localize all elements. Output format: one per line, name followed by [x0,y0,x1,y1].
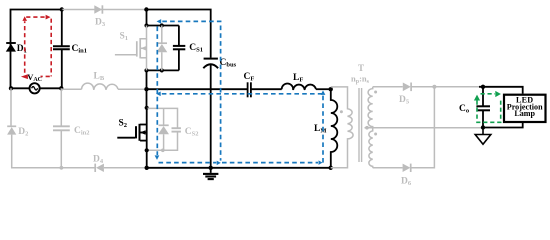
green dashed output loop [477,94,501,123]
capacitor CF (resonant) [248,82,251,97]
blue arrow right (bottom edge at LM leg) [319,160,323,165]
arrow of S2 [140,130,146,135]
ground (output, open triangle) [475,128,491,145]
blue arrow left (upper loop top edge) [157,19,162,24]
diode D2 (gray) [7,126,16,134]
svg-text:Cbus: Cbus [220,58,237,69]
svg-text:Lamp: Lamp [514,109,535,118]
diode D4 (gray) [95,164,104,172]
polarity dot secondary top [374,91,377,94]
transistor S2 (black MOSFET) [117,108,146,168]
diode of S2 cell (gray clamp diode) [158,108,169,152]
node: lower rail / Cin2 leg (gray) [60,166,64,170]
wire: Cbus stem down to bottom bus [210,64,212,168]
node: S1 cell top left [144,23,148,27]
wire: top bus black to Cbus corner [146,10,210,58]
node: S1 cell bottom left [144,68,148,72]
capacitor Cin2 (gray) [53,126,70,130]
inductor LM (magnetizing) [331,89,338,168]
diode D6 (gray) [403,164,411,172]
wire: gray lower rail with D4 [11,167,147,169]
node: bottom bus / ground [209,166,213,170]
wire: gray mid rail to boost inductor [61,88,144,90]
wire: output top black [479,87,523,94]
wire: LF to transformer [316,88,331,90]
capacitor CS1 [173,26,185,71]
wire: mid rail black to CF [147,88,248,90]
capacitor Cin1 [53,10,70,89]
red arrow up (left edge top) [22,16,27,21]
green arrow up (left edge) [474,95,480,101]
node: primary bottom [329,166,333,170]
wire: top bus black, left loop top [11,10,62,89]
node: output top [481,85,485,89]
blue arrow left (lower loop top edge) [156,92,161,97]
svg-text:CF: CF [244,72,255,83]
wire: bottom bus black [147,167,331,169]
wire: secondary bottom rail gray with D6 [373,87,435,168]
capacitor Co [476,87,490,128]
node: top bus / S1 leg junction [144,7,148,11]
red arrow right (top edge) [46,15,51,20]
green arrow right (top edge) [495,91,501,97]
svg-text:D6: D6 [401,177,412,188]
wire: gray Cin2 leg [60,88,62,168]
svg-text:CS2: CS2 [185,127,199,138]
svg-text:CS1: CS1 [189,43,203,54]
blue arrow right (bottom edge at ground leg) [217,161,221,166]
node: output bottom [481,125,485,129]
diode D5 (gray) [403,83,411,92]
diode of S1 cell (gray clamp diode) [156,26,167,71]
red arrow left (bottom edge) [21,74,28,79]
transformer secondary top winding (gray) [368,87,373,128]
wire: CF to LF [251,88,282,90]
svg-text:D3: D3 [95,18,106,29]
wire: left loop bottom with VAC [11,87,62,89]
svg-text:LB: LB [94,72,105,83]
svg-text:Cin1: Cin1 [72,44,88,55]
source VAC (AC) [29,83,39,93]
blue arrow down (left edge) [155,155,160,160]
capacitor Cbus (polarized) [203,59,218,69]
transformer secondary bottom winding (gray) [369,128,373,168]
wire: S1 cell bottom node [147,69,179,71]
svg-text:S2: S2 [119,119,128,130]
polarity dot secondary bottom [374,133,377,136]
svg-text:D2: D2 [18,127,28,138]
node: D6 return junction (gray) [432,85,436,89]
wire: gray S2 cell bottom node [147,132,178,151]
transistor S1 (gray MOSFET) [115,26,147,71]
transformer T primary winding (gray) [331,87,353,168]
node: top bus / Cin1 junction [60,7,64,11]
svg-text:VAC: VAC [27,72,42,83]
LED Projection Lamp box [504,95,546,122]
wire: gray top bus to D3 [62,9,147,11]
wire: secondary top rail gray with D5 [373,86,480,88]
inductor LF (resonant) [282,83,316,89]
svg-text:np:ns: np:ns [351,74,370,85]
svg-text:LF: LF [293,73,303,84]
wire: gray left leg down to lower rail [10,88,13,168]
wire: center tap rail gray [365,127,482,129]
node: center tap [365,126,369,130]
svg-text:Cin2: Cin2 [74,126,90,137]
wire: S1 cell top node [147,25,179,27]
wire: black S-leg vertical (top bus to S1 cell) [146,10,148,26]
arrow of S1 [141,46,146,50]
diode D3 (gray) [94,5,102,13]
node: S1 cell diode top [160,23,164,27]
ground (earth, at Cbus leg) [203,168,218,179]
inductor LB (gray) [82,83,118,89]
node: primary top [329,87,333,91]
wire: black midpoint leg (S1 cell bottom through mid rail to S2 cell) [146,70,148,107]
svg-text:Co: Co [459,104,469,115]
node: S2 cell bottom [145,148,149,152]
node: S2 cell top [145,106,149,110]
svg-text:D4: D4 [93,155,104,166]
wire: gray S2 cell top node [147,108,178,128]
blue dashed loop upper (CS1 path) [157,21,323,162]
transformer core [359,88,362,162]
node: bottom bus / S2 [145,166,149,170]
node: bottom of Cin1 leg [59,86,63,90]
svg-text:T: T [358,63,364,73]
capacitor CS2 (gray) [172,128,181,131]
node: S1 cell diode bottom [160,68,164,72]
svg-text:S1: S1 [120,32,129,43]
red dashed current loop with arrows [25,17,52,76]
polarity dot primary [340,110,343,113]
node: half-bridge midpoint [144,87,148,91]
node: bottom-left [9,86,13,90]
diode D1 [6,43,16,52]
blue arrow up (LM leg) [321,90,326,95]
svg-text:D5: D5 [399,95,410,106]
wire: output bottom black [483,123,523,128]
svg-text:LM: LM [314,124,326,135]
